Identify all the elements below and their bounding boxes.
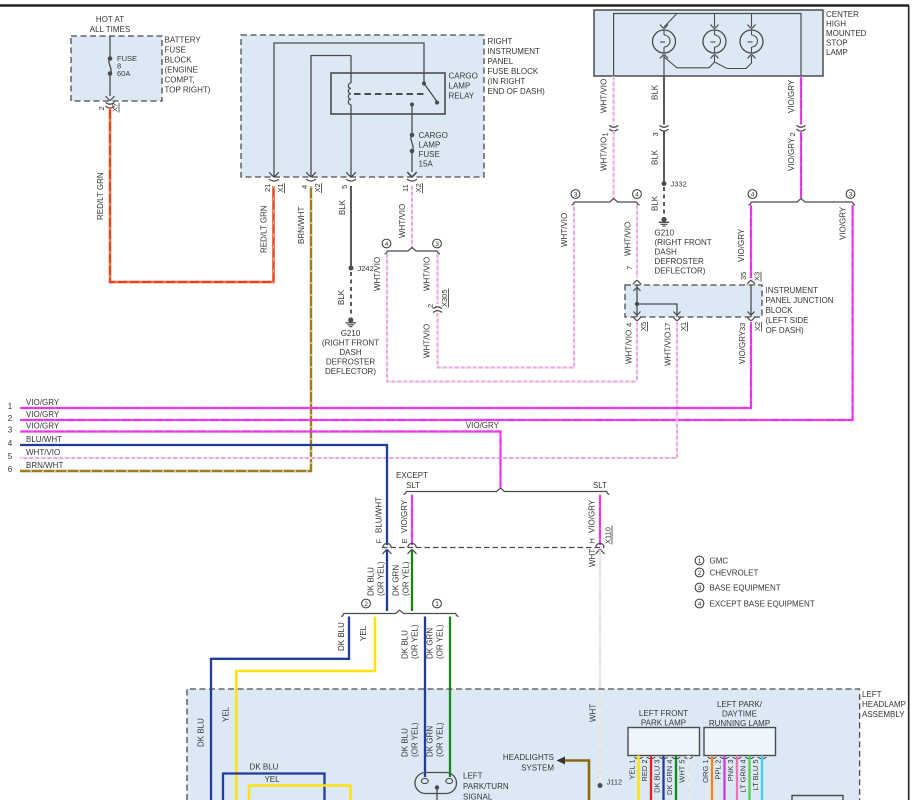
- brace splitting WHT/VIO (4)/(3): [386, 250, 388, 252]
- svg-text:SIGNAL: SIGNAL: [463, 793, 493, 800]
- wire BLK dashed J332 to G210: [663, 187, 665, 216]
- brace WHT/VIO (3)/(4) below CHMSL: [573, 201, 575, 203]
- svg-text:BLU/WHT: BLU/WHT: [26, 435, 62, 444]
- svg-text:DK BLU: DK BLU: [197, 718, 206, 747]
- svg-text:OF DASH): OF DASH): [766, 326, 805, 335]
- svg-text:PANEL: PANEL: [488, 57, 514, 66]
- svg-text:33: 33: [738, 323, 747, 331]
- wire LT GRN 4 left park/daytime running lamp: [748, 756, 750, 800]
- svg-text:WHT/VIO: WHT/VIO: [625, 330, 634, 364]
- svg-text:SLT: SLT: [406, 481, 420, 490]
- ground G210 (left): [348, 317, 353, 322]
- wire DK BLU (OR YEL) branch (1) to left park/turn signal: [424, 617, 426, 778]
- wire DK GRN (OR YEL) branch (1) to left park/turn signal: [449, 617, 451, 778]
- svg-text:VIO/GRY: VIO/GRY: [26, 398, 60, 407]
- wire BLK from pin 5 to J242: [350, 186, 352, 266]
- svg-text:BLU/WHT: BLU/WHT: [375, 497, 384, 533]
- svg-text:FUSE: FUSE: [419, 150, 440, 159]
- left park/turn signal lamp: [415, 773, 457, 794]
- svg-text:3: 3: [435, 241, 439, 248]
- svg-text:FUSE: FUSE: [165, 46, 186, 55]
- CHMSL bulb 2: [703, 30, 726, 53]
- svg-text:X110: X110: [604, 527, 613, 544]
- relay switch arm: [424, 84, 437, 102]
- svg-text:PANEL JUNCTION: PANEL JUNCTION: [766, 296, 834, 305]
- svg-text:H: H: [588, 538, 597, 543]
- svg-text:DEFLECTOR): DEFLECTOR): [655, 267, 706, 276]
- svg-text:CARGO: CARGO: [449, 72, 478, 81]
- svg-text:DK GRN: DK GRN: [426, 726, 435, 757]
- svg-text:WHT/VIO: WHT/VIO: [600, 137, 609, 171]
- svg-text:VIO/GRY: VIO/GRY: [400, 499, 409, 533]
- svg-text:YEL: YEL: [264, 775, 280, 784]
- svg-text:DK GRN 4: DK GRN 4: [665, 760, 674, 795]
- svg-text:WHT/VIO: WHT/VIO: [398, 204, 407, 238]
- CHMSL bulb 1: [653, 30, 676, 53]
- svg-text:RED/LT GRN: RED/LT GRN: [260, 205, 269, 253]
- svg-text:DK BLU: DK BLU: [337, 622, 346, 651]
- wire VIO/GRY CHMSL pin 2: [800, 76, 802, 125]
- svg-text:FUSE BLOCK: FUSE BLOCK: [488, 67, 539, 76]
- svg-text:X5: X5: [639, 322, 648, 331]
- svg-text:(OR YEL): (OR YEL): [411, 624, 420, 659]
- svg-text:HEADLAMP: HEADLAMP: [862, 700, 906, 709]
- svg-text:CHEVROLET: CHEVROLET: [710, 569, 759, 578]
- svg-text:LAMP: LAMP: [419, 141, 441, 150]
- svg-text:WHT/VIO: WHT/VIO: [26, 448, 60, 457]
- svg-text:DEFROSTER: DEFROSTER: [655, 257, 705, 266]
- svg-text:DK GRN: DK GRN: [392, 565, 401, 596]
- svg-text:VIO/GRY: VIO/GRY: [588, 499, 597, 533]
- right instrument panel fuse block: [241, 35, 484, 177]
- in-line connector X305 pin 2: [433, 307, 442, 309]
- svg-text:4: 4: [8, 439, 13, 448]
- svg-text:X7: X7: [111, 103, 120, 112]
- svg-text:WHT/VIO: WHT/VIO: [560, 213, 569, 247]
- svg-text:WHT: WHT: [589, 704, 598, 722]
- svg-text:J242: J242: [358, 264, 374, 273]
- svg-text:X1: X1: [276, 183, 285, 192]
- svg-text:BLK: BLK: [651, 84, 660, 100]
- svg-text:RED/LT GRN: RED/LT GRN: [96, 172, 105, 220]
- svg-text:E: E: [400, 538, 409, 543]
- wire RED/LT GRN from battery fuse block to IP fuse block pin 21: [110, 107, 274, 282]
- svg-text:END OF DASH): END OF DASH): [488, 87, 546, 96]
- wire BLK dashed J242 to G210: [350, 272, 352, 316]
- svg-text:DK GRN: DK GRN: [426, 628, 435, 659]
- svg-text:2: 2: [8, 414, 13, 423]
- svg-text:4: 4: [751, 191, 755, 198]
- svg-text:YEL: YEL: [222, 706, 231, 722]
- svg-text:DK BLU: DK BLU: [250, 763, 279, 772]
- svg-text:BLOCK: BLOCK: [165, 56, 193, 65]
- svg-text:35: 35: [739, 272, 748, 280]
- svg-text:5: 5: [340, 185, 349, 189]
- svg-text:DEFROSTER: DEFROSTER: [326, 358, 376, 367]
- svg-text:F: F: [375, 539, 384, 544]
- svg-text:X1: X1: [679, 322, 688, 331]
- svg-text:BLK: BLK: [337, 289, 346, 305]
- wire BLU/WHT row 4 to X110 pin F: [20, 445, 387, 545]
- svg-text:(OR YEL): (OR YEL): [436, 722, 445, 757]
- svg-text:RUNNING LAMP: RUNNING LAMP: [709, 719, 770, 728]
- svg-text:LT GRN 4: LT GRN 4: [738, 760, 747, 793]
- wire BLK CHMSL pin 3: [663, 76, 665, 125]
- svg-text:4: 4: [635, 191, 639, 198]
- svg-text:WHT/VIO: WHT/VIO: [423, 324, 432, 358]
- svg-text:PNK 3: PNK 3: [726, 760, 735, 782]
- svg-text:BLOCK: BLOCK: [766, 306, 794, 315]
- svg-text:PARK/TURN: PARK/TURN: [463, 782, 509, 791]
- svg-text:WHT 5: WHT 5: [677, 760, 686, 783]
- svg-text:COMPT,: COMPT,: [165, 76, 195, 85]
- svg-text:BASE EQUIPMENT: BASE EQUIPMENT: [710, 584, 781, 593]
- svg-text:15A: 15A: [419, 160, 434, 169]
- svg-text:BLK: BLK: [651, 195, 660, 211]
- svg-text:(LEFT SIDE: (LEFT SIDE: [766, 316, 809, 325]
- cargo lamp fuse 15A: [411, 105, 413, 136]
- svg-text:J332: J332: [671, 180, 687, 189]
- svg-text:PARK LAMP: PARK LAMP: [641, 719, 686, 728]
- svg-text:4: 4: [385, 241, 389, 248]
- svg-text:17: 17: [663, 323, 672, 331]
- svg-text:3: 3: [574, 191, 578, 198]
- svg-text:STOP: STOP: [826, 39, 848, 48]
- wire ORG 1 left park/daytime running lamp: [711, 756, 713, 800]
- svg-text:DK BLU 3: DK BLU 3: [652, 760, 661, 793]
- svg-text:YEL: YEL: [359, 625, 368, 641]
- svg-text:ALL TIMES: ALL TIMES: [90, 25, 130, 34]
- svg-text:2: 2: [788, 132, 797, 136]
- svg-text:X2: X2: [753, 322, 762, 331]
- wire VIO/GRY brace to X110 pin H: [599, 495, 601, 546]
- wire VIO/GRY IPJB pin33/X2 to row 1: [20, 322, 751, 408]
- svg-text:(OR YEL): (OR YEL): [402, 561, 411, 596]
- IPJB internal wiring: [636, 285, 638, 317]
- svg-text:PPL 2: PPL 2: [713, 760, 722, 780]
- svg-text:3: 3: [651, 132, 660, 136]
- svg-text:EXCEPT BASE EQUIPMENT: EXCEPT BASE EQUIPMENT: [710, 600, 815, 609]
- wire DK GRN (OR YEL) X110-E down to brace: [411, 550, 413, 611]
- svg-text:CARGO: CARGO: [419, 131, 448, 140]
- svg-text:(IN RIGHT: (IN RIGHT: [488, 77, 526, 86]
- brace VIO/GRY (4)/(3): [750, 201, 752, 203]
- wire DK BLU 3 left front park lamp: [662, 756, 664, 800]
- wire VIO/GRY row 3 to EXCEPT-SLT brace: [20, 432, 501, 488]
- svg-text:2: 2: [97, 106, 106, 110]
- svg-text:60A: 60A: [117, 69, 130, 78]
- svg-text:(OR YEL): (OR YEL): [436, 624, 445, 659]
- svg-text:WHT/VIO: WHT/VIO: [664, 332, 673, 366]
- svg-text:LAMP: LAMP: [449, 82, 471, 91]
- svg-text:VIO/GRY: VIO/GRY: [787, 137, 796, 171]
- svg-text:DAYTIME: DAYTIME: [722, 710, 757, 719]
- svg-text:(RIGHT FRONT: (RIGHT FRONT: [322, 339, 379, 348]
- svg-text:WHT/VIO: WHT/VIO: [373, 257, 382, 291]
- wire WHT/VIO below X305 to CHMSL brace left branch: [438, 204, 575, 368]
- relay actuation dashed link: [354, 93, 425, 95]
- svg-text:VIO/GRY: VIO/GRY: [26, 422, 60, 431]
- wire WHT/VIO branch (4) to IPJB pin 4/X5 horizontal: [387, 254, 637, 382]
- svg-text:X2: X2: [313, 183, 322, 192]
- svg-text:X305: X305: [440, 289, 449, 307]
- svg-text:LEFT: LEFT: [463, 772, 483, 781]
- svg-text:VIO/GRY: VIO/GRY: [466, 421, 500, 430]
- svg-text:INSTRUMENT: INSTRUMENT: [488, 47, 541, 56]
- instrument panel junction block: [625, 285, 762, 317]
- svg-text:WHT: WHT: [588, 549, 597, 567]
- wire DK BLU (OR YEL) X110-F down to brace: [386, 550, 388, 611]
- svg-text:MOUNTED: MOUNTED: [826, 29, 867, 38]
- wire WHT/VIO IPJB pin17/X1 to row 5: [20, 322, 677, 458]
- svg-text:SYSTEM: SYSTEM: [521, 764, 554, 773]
- IPJB pin 33/X2 bottom: [747, 317, 755, 321]
- CHMSL internal feed rail: [614, 14, 801, 77]
- svg-text:X2: X2: [414, 183, 423, 192]
- svg-text:RELAY: RELAY: [449, 92, 475, 101]
- headlights system off-page arrow: [557, 757, 566, 765]
- svg-text:J112: J112: [607, 778, 623, 787]
- svg-text:3: 3: [8, 426, 13, 435]
- svg-text:ORG 1: ORG 1: [701, 760, 710, 783]
- svg-text:LEFT PARK/: LEFT PARK/: [717, 700, 763, 709]
- wire YEL branch (2) into headlamp assembly: [236, 617, 375, 800]
- relay coil: [350, 56, 352, 84]
- svg-text:VIO/GRY: VIO/GRY: [26, 410, 60, 419]
- svg-text:(OR YEL): (OR YEL): [411, 722, 420, 757]
- svg-text:X3: X3: [753, 272, 762, 281]
- fuse 8 60A: [109, 36, 111, 59]
- svg-text:BRN/WHT: BRN/WHT: [297, 207, 306, 244]
- svg-text:TOP RIGHT): TOP RIGHT): [165, 86, 211, 95]
- svg-text:LEFT: LEFT: [862, 690, 882, 699]
- in-line connector X110: [382, 547, 604, 549]
- splice J332: [662, 181, 667, 186]
- wire VIO/GRY branch (3) to row 2: [20, 205, 853, 420]
- svg-text:4: 4: [300, 185, 309, 189]
- svg-text:BLK: BLK: [338, 199, 347, 215]
- svg-text:3: 3: [849, 191, 853, 198]
- svg-text:BRN/WHT: BRN/WHT: [26, 461, 63, 470]
- wire WHT/VIO CHMSL pin 1: [612, 76, 614, 125]
- wire LT BLU 5 left park/daytime running lamp: [761, 756, 763, 800]
- svg-text:HOT AT: HOT AT: [96, 15, 124, 24]
- svg-text:RIGHT: RIGHT: [488, 37, 513, 46]
- IPJB pin 35/X3 top: [747, 280, 755, 284]
- svg-text:7: 7: [625, 266, 634, 270]
- svg-text:1: 1: [8, 402, 13, 411]
- svg-text:3: 3: [698, 585, 702, 592]
- fuse block pins 21/X1, 4/X2, 5, 11/X2: [269, 172, 279, 177]
- svg-text:SLT: SLT: [593, 481, 607, 490]
- left headlamp assembly fill: [187, 689, 860, 800]
- svg-text:WHT/VIO: WHT/VIO: [600, 79, 609, 113]
- svg-text:HIGH: HIGH: [826, 20, 846, 29]
- svg-text:GMC: GMC: [710, 557, 729, 566]
- wire BROWN to headlights system: [565, 761, 589, 800]
- IPJB pin 4/X5 bottom: [633, 317, 641, 321]
- svg-text:HEADLIGHTS: HEADLIGHTS: [503, 753, 554, 762]
- wire VIO/GRY branch (4) to IPJB pin 35/X3: [750, 205, 752, 278]
- svg-text:DEFLECTOR): DEFLECTOR): [325, 367, 376, 376]
- connector X7 pin 2: [106, 102, 115, 104]
- relay coil feed to pin 4: [311, 56, 351, 178]
- center high mounted stop lamp box: [594, 10, 823, 76]
- wire DK BLU branch (2) into headlamp assembly: [211, 617, 349, 800]
- wire WHT 5 left front park lamp: [687, 756, 689, 800]
- svg-text:1: 1: [601, 132, 610, 136]
- svg-text:(RIGHT FRONT: (RIGHT FRONT: [655, 238, 712, 247]
- wire BRN/WHT pin4/X2 to row 6: [20, 186, 311, 471]
- page top border: [0, 4, 909, 6]
- svg-text:LAMP: LAMP: [826, 48, 848, 57]
- svg-text:2: 2: [426, 304, 435, 308]
- svg-text:ASSEMBLY: ASSEMBLY: [862, 710, 905, 719]
- ground G210 (right front dash defroster deflector): [661, 217, 666, 222]
- wire DK GRN 4 left front park lamp: [675, 756, 677, 800]
- wire WHT/VIO from pin 11/X2 down to brace: [411, 186, 413, 248]
- headlamp internal YEL jumper: [249, 786, 351, 800]
- svg-text:G210: G210: [341, 329, 361, 338]
- svg-text:CENTER: CENTER: [826, 10, 859, 19]
- svg-text:EXCEPT: EXCEPT: [396, 471, 428, 480]
- svg-text:RED 2: RED 2: [640, 760, 649, 782]
- CHMSL bulb ground ties: [663, 56, 665, 76]
- wire WHT/VIO IPJB pin4/X5 down (joins horizontal run): [636, 322, 638, 382]
- cargo lamp relay U1: [331, 73, 445, 114]
- brace (2)/(1) for park/turn wires: [343, 613, 345, 615]
- svg-text:LT BLU 5: LT BLU 5: [751, 760, 760, 791]
- headlamp internal DK BLU jumper: [223, 774, 325, 800]
- svg-text:5: 5: [8, 452, 13, 461]
- svg-text:VIO/GRY: VIO/GRY: [737, 228, 746, 262]
- svg-text:INSTRUMENT: INSTRUMENT: [766, 286, 819, 295]
- svg-text:1: 1: [698, 558, 702, 565]
- svg-text:4: 4: [698, 601, 702, 608]
- wire PNK 3 left park/daytime running lamp: [736, 756, 738, 800]
- relay internal: feed rail from pin 21 to switch contact: [274, 43, 424, 177]
- svg-text:G210: G210: [655, 229, 675, 238]
- legend notes 1-4: [695, 556, 704, 565]
- IPJB pin 7 top: [633, 280, 641, 284]
- svg-text:YEL 1: YEL 1: [627, 760, 636, 780]
- wire WHT/VIO branch (4) to IPJB pin 7: [636, 205, 638, 278]
- splice J112: [598, 783, 603, 788]
- svg-text:1: 1: [435, 601, 439, 608]
- wire VIO/GRY brace to X110 pin E: [411, 495, 413, 546]
- svg-text:(ENGINE: (ENGINE: [165, 66, 198, 75]
- svg-text:2: 2: [364, 601, 368, 608]
- svg-text:4: 4: [625, 323, 634, 327]
- svg-text:VIO/GRY: VIO/GRY: [787, 79, 796, 113]
- page right border: [908, 6, 910, 800]
- IPJB pin 17/X1 bottom: [673, 317, 681, 321]
- wire WHT X110-H down to J112: [599, 550, 601, 785]
- svg-text:WHT/VIO: WHT/VIO: [624, 222, 633, 256]
- svg-text:VIO/GRY: VIO/GRY: [738, 330, 747, 364]
- wire PPL 2 left park/daytime running lamp: [723, 756, 725, 800]
- wire RED 2 left front park lamp: [650, 756, 652, 800]
- svg-text:WHT/VIO: WHT/VIO: [423, 257, 432, 291]
- svg-text:BATTERY: BATTERY: [165, 36, 202, 45]
- splice J242: [349, 266, 354, 271]
- wire YEL 1 left front park lamp: [637, 756, 640, 800]
- svg-text:DASH: DASH: [655, 248, 677, 257]
- svg-text:(OR YEL): (OR YEL): [377, 561, 386, 596]
- svg-text:VIO/GRY: VIO/GRY: [839, 206, 848, 240]
- small box bottom right (cut off): [792, 796, 843, 800]
- svg-text:DK BLU: DK BLU: [401, 728, 410, 757]
- svg-text:6: 6: [8, 465, 13, 474]
- svg-text:21: 21: [263, 184, 272, 192]
- svg-text:DK BLU: DK BLU: [367, 567, 376, 596]
- CHMSL bulb 3: [740, 30, 763, 53]
- svg-text:BLK: BLK: [651, 149, 660, 165]
- svg-text:2: 2: [698, 570, 702, 577]
- svg-text:LEFT FRONT: LEFT FRONT: [639, 709, 688, 718]
- left headlamp assembly box border: [187, 689, 860, 800]
- wire WHT/VIO branch (3) into X305: [436, 254, 438, 304]
- svg-text:DK BLU: DK BLU: [401, 630, 410, 659]
- svg-text:DASH: DASH: [339, 348, 361, 357]
- svg-text:11: 11: [401, 184, 410, 192]
